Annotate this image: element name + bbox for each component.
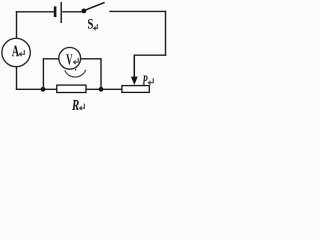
wire left vertical lower (ammeter to bottom corner) [16,67,18,90]
rheostat P body [122,86,149,93]
wire resistor to rheostat [86,88,122,90]
wire voltmeter right branch [81,59,102,89]
label A [12,46,24,57]
wire voltmeter left branch [43,59,59,90]
wire top-left horizontal (corner to battery) [16,11,54,13]
wire switch to top-right corner [109,10,166,12]
wire right vertical [165,11,167,56]
wire left vertical upper (corner to ammeter) [16,11,18,38]
label R [72,100,85,110]
label V [66,54,78,65]
ammeter U1 [2,38,30,66]
resistor R body [57,85,86,92]
rheostat P slider arrow [131,55,138,85]
junction dot 1 [41,87,46,92]
voltmeter U2 [59,47,81,69]
voltmeter shadow tick [75,69,77,71]
junction dot 2 [99,87,104,92]
label P [142,76,153,85]
wire jog to slider [134,54,166,56]
voltmeter shadow arc [65,70,86,77]
switch S1 [82,2,105,13]
battery [55,2,61,23]
wire bottom left (corner to resistor) [16,88,57,90]
wire battery to switch [62,11,82,13]
label S [88,19,97,30]
